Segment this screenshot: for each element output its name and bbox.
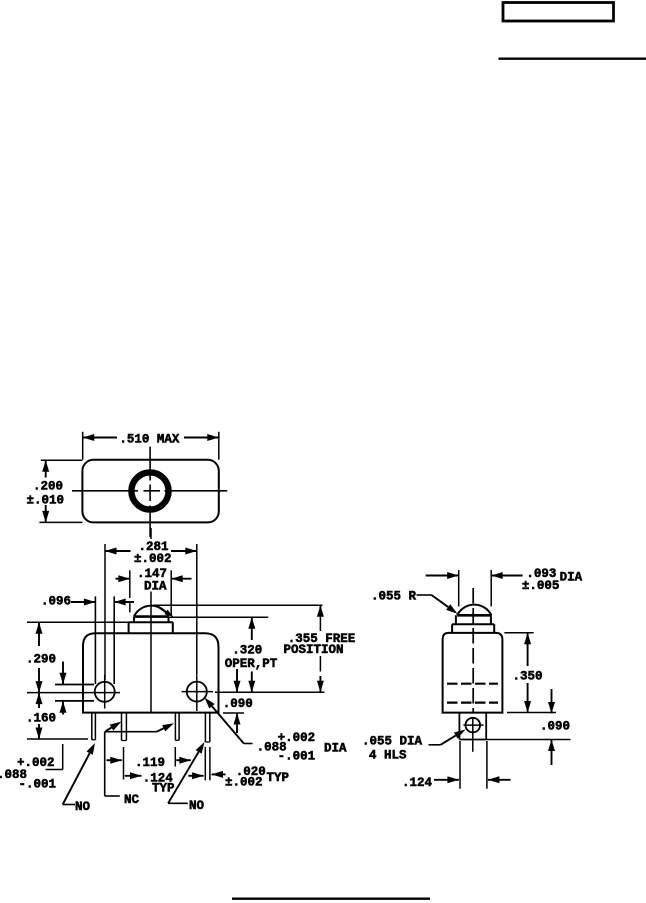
dimension .355: bottom arrow xyxy=(317,676,324,692)
front view: left side terminal tab xyxy=(55,685,94,701)
pin 3 extension line xyxy=(174,747,176,767)
svg-text:.200: .200 xyxy=(33,480,63,494)
dimension .290: hole center extension line xyxy=(27,692,120,694)
dimension .090 side: bottom extension line xyxy=(486,739,570,741)
svg-text:.290: .290 xyxy=(26,653,56,667)
dimension .147: DIA label xyxy=(144,580,167,594)
dimension .200: top arrow xyxy=(42,460,49,477)
dimension .088 right: tolerance plus xyxy=(278,731,316,745)
front view: switch body outline xyxy=(83,633,219,712)
dimension .020: value label xyxy=(236,765,266,779)
front view: right hole crosshair xyxy=(182,675,214,711)
dimension .147: left extension line (dashed) xyxy=(129,570,131,612)
svg-text:DIA: DIA xyxy=(560,571,583,585)
side view: tab hole xyxy=(466,718,481,733)
dimension .281: left arrow xyxy=(105,548,131,555)
dimension .200: bottom extension line xyxy=(39,521,82,523)
svg-text:+.002: +.002 xyxy=(278,731,316,745)
front view: operating point line extension xyxy=(169,616,269,618)
dimension .147: value label xyxy=(137,567,167,581)
svg-text:4 HLS: 4 HLS xyxy=(369,749,407,763)
front view: terminal pin 4 xyxy=(205,713,209,742)
dimension .020: TYP label xyxy=(267,771,290,785)
dimension .355: value label xyxy=(288,632,356,646)
label NO left text xyxy=(75,800,91,814)
svg-text:.096: .096 xyxy=(41,595,71,609)
dimension .124: left arrow xyxy=(125,772,142,779)
dimension .119: right arrow xyxy=(176,757,191,764)
svg-text:.320: .320 xyxy=(232,644,262,658)
dimension .290: bottom arrow xyxy=(36,668,43,693)
dimension .124: TYP label xyxy=(152,782,175,796)
svg-text:.090: .090 xyxy=(223,697,253,711)
dimension .350: value label xyxy=(513,670,543,684)
dimension .020: tolerance label xyxy=(225,776,263,790)
dimension .093: DIA label xyxy=(560,571,583,585)
svg-text:.119: .119 xyxy=(135,756,165,770)
side view: hidden line lower xyxy=(447,701,498,703)
svg-text:±.002: ±.002 xyxy=(134,552,172,566)
front view: vertical center line xyxy=(150,528,152,712)
label NC arrow to pin 3 xyxy=(157,723,174,732)
side view: plunger tier 1 xyxy=(456,615,491,624)
svg-text:.090: .090 xyxy=(540,720,570,734)
dimension .088 right: DIA label xyxy=(324,742,347,756)
label NO right text xyxy=(189,799,205,813)
dimension .350: bottom extension line xyxy=(507,712,556,714)
label .055 DIA: leader xyxy=(429,730,466,745)
dimension .510 MAX: right extension line xyxy=(218,432,220,460)
dimension .200: value label xyxy=(33,480,63,494)
dimension .096: left arrow xyxy=(71,599,95,606)
svg-text:.350: .350 xyxy=(513,670,543,684)
front view: left mounting hole xyxy=(95,682,115,702)
dimension .147: right extension line xyxy=(170,570,172,615)
dimension .147: right arrow xyxy=(171,575,191,582)
side view: body outline xyxy=(443,633,503,713)
dimension .088 left: tolerance plus label xyxy=(17,756,55,770)
dimension .320: top arrow xyxy=(248,617,255,640)
dimension .355: hole center extension line xyxy=(215,691,325,693)
dimension .090 front: body bottom extension xyxy=(223,712,244,714)
label .055 DIA: 4 HLS xyxy=(369,749,407,763)
svg-text:DIA: DIA xyxy=(144,580,167,594)
dimension .088 right: leader xyxy=(205,698,253,744)
svg-text:.055 DIA: .055 DIA xyxy=(362,735,423,749)
dimension .090 front: top arrow xyxy=(234,669,241,692)
dimension .355: top arrow xyxy=(317,605,324,617)
dimension .093: right extension line xyxy=(490,570,492,606)
dimension .200: top extension line xyxy=(41,459,83,461)
dimension .124: value label xyxy=(143,772,174,786)
dimension .093: tolerance label xyxy=(522,579,560,593)
label NC arrow to pin 2 xyxy=(106,722,122,732)
side view: plunger tier 2 xyxy=(452,624,494,632)
dimension .093: right arrow xyxy=(491,572,522,579)
front view: plunger dome xyxy=(134,606,169,617)
dimension .088 right: tolerance minus xyxy=(278,750,316,764)
dimension .281: tolerance label xyxy=(134,552,172,566)
side view: bottom terminal tab xyxy=(459,713,486,740)
dimension .290: top arrow xyxy=(36,622,43,646)
dimension .090 side: bottom arrow xyxy=(548,740,555,766)
top view: plunger hole ring xyxy=(131,472,168,509)
dimension .124 side: left extension line xyxy=(459,741,461,789)
dimension .320: OPER,PT label xyxy=(225,657,278,671)
dimension .510 MAX: left extension line xyxy=(82,432,84,460)
dimension .510 MAX: left arrow xyxy=(83,434,117,441)
front view: pretravel arrow on dome xyxy=(157,606,174,617)
dimension .088 right: value label xyxy=(257,741,287,755)
dimension .510 MAX: right arrow xyxy=(184,434,219,441)
front view: right mounting hole xyxy=(187,682,207,702)
header rule (top right) xyxy=(499,58,646,60)
dimension .355: dim line upper segment xyxy=(319,612,321,631)
front view: left hole vertical center line xyxy=(104,675,106,709)
dimension .088 left: leader bracket xyxy=(46,744,63,770)
side view: hidden line upper xyxy=(447,683,498,685)
dimension .320: bottom arrow xyxy=(248,671,255,692)
pin 2 extension line xyxy=(123,747,125,780)
front view: internal slot left line xyxy=(94,596,96,684)
svg-text:TYP: TYP xyxy=(267,771,290,785)
label NO (pin 1 leader) xyxy=(63,743,95,805)
dimension .090 front: value label xyxy=(223,697,253,711)
dimension .088 left: tolerance minus label xyxy=(19,778,57,792)
svg-text:-.001: -.001 xyxy=(278,750,316,764)
svg-text:±.010: ±.010 xyxy=(27,494,65,508)
dimension .281: left extension line xyxy=(104,544,106,680)
svg-text:.160: .160 xyxy=(26,712,56,726)
side view: plunger dome xyxy=(457,605,491,616)
dimension .088 left: up arrow at tab bottom xyxy=(60,701,67,714)
dimension .093: left extension line xyxy=(458,570,460,606)
dimension .290: top extension line xyxy=(27,621,129,623)
dimension .320: value label xyxy=(232,644,262,658)
dimension .350: top extension line xyxy=(504,632,533,634)
top view: switch body outline xyxy=(82,460,218,523)
figure label box (top right) xyxy=(503,3,614,22)
dimension .160: bottom arrow xyxy=(36,724,43,739)
dimension .088 left: down arrow at tab top xyxy=(60,662,67,685)
dimension .350: top arrow xyxy=(524,633,531,666)
svg-text:-.001: -.001 xyxy=(19,778,57,792)
label .055 DIA: value xyxy=(362,735,423,749)
dimension .281: right extension line xyxy=(196,544,198,675)
dimension .124 side: right arrow xyxy=(488,776,511,783)
dimension .020: right arrow xyxy=(212,771,226,778)
dimension .510 MAX: value label xyxy=(119,433,180,447)
svg-text:DIA: DIA xyxy=(324,742,347,756)
front view: plunger dome base line xyxy=(134,615,169,618)
label NC text xyxy=(124,793,140,807)
svg-text:NC: NC xyxy=(124,793,140,807)
side view: vertical center dashed line xyxy=(472,588,474,712)
dimension .090 front: bottom arrow xyxy=(234,713,241,733)
svg-text:TYP: TYP xyxy=(152,782,175,796)
dimension .088 left: value label xyxy=(0,768,27,782)
dimension .281: right arrow xyxy=(171,548,197,555)
side view: tab hole crosshair xyxy=(463,718,483,751)
svg-text:OPER,PT: OPER,PT xyxy=(225,657,278,671)
side view: dome base line xyxy=(457,614,491,617)
dimension .160: value label xyxy=(26,712,56,726)
svg-text:.055 R: .055 R xyxy=(371,590,417,604)
dimension .281: value label xyxy=(139,540,169,554)
dimension .119: left arrow xyxy=(107,757,122,764)
dimension .147: left arrow xyxy=(116,575,130,582)
dimension .093: value label xyxy=(526,567,556,581)
dimension .093: left arrow xyxy=(426,572,459,579)
front view: terminal pin 2 xyxy=(122,713,127,741)
dimension .055 R: value label xyxy=(371,590,417,604)
dimension .200: tolerance label xyxy=(27,494,65,508)
dimension .124: right arrow xyxy=(188,772,203,779)
front view: free position line xyxy=(153,604,323,606)
svg-text:.124: .124 xyxy=(402,776,433,790)
top view: vertical center line xyxy=(149,447,151,537)
front view: internal slot right line xyxy=(113,596,115,684)
dimension .124 side: value label xyxy=(402,776,433,790)
dimension .124 side: right extension line xyxy=(486,741,488,789)
front view: plunger step line xyxy=(129,621,173,623)
svg-text:POSITION: POSITION xyxy=(284,643,344,657)
dimension .096: right arrow xyxy=(114,599,134,606)
dimension .355: dim line lower segment xyxy=(319,656,321,672)
svg-text:±.002: ±.002 xyxy=(225,776,263,790)
dimension .090 side: top arrow xyxy=(548,689,555,714)
front view: plunger upper tier xyxy=(134,617,169,623)
dimension .090 side: value label xyxy=(540,720,570,734)
svg-text:NO: NO xyxy=(189,799,205,813)
dimension .055 R: leader xyxy=(417,595,458,614)
side view: tier 1 base line xyxy=(452,623,494,625)
front view: plunger collar xyxy=(129,622,173,633)
dimension .096: value label xyxy=(41,595,71,609)
dimension .160: top arrow xyxy=(36,693,43,708)
svg-text:.510 MAX: .510 MAX xyxy=(119,433,180,447)
top view: horizontal center line xyxy=(72,490,227,492)
dimension .350: bottom arrow xyxy=(524,683,531,713)
front view: terminal pin 3 xyxy=(175,713,179,741)
svg-text:NO: NO xyxy=(75,800,91,814)
footer rule (bottom center) xyxy=(232,898,430,900)
front view: terminal pin 1 xyxy=(92,713,96,740)
svg-text:±.005: ±.005 xyxy=(522,579,560,593)
dimension .124 side: left arrow xyxy=(434,776,459,783)
dimension .200: bottom arrow xyxy=(42,505,49,522)
dimension .355: POSITION label xyxy=(284,643,344,657)
label NC leader xyxy=(105,732,157,796)
dimension .290: value label xyxy=(26,653,56,667)
dimension .119: value label xyxy=(135,756,165,770)
pin 4 extension lines xyxy=(205,747,210,780)
dimension .160: bottom extension line xyxy=(27,738,88,740)
label NO right leader xyxy=(168,742,204,803)
